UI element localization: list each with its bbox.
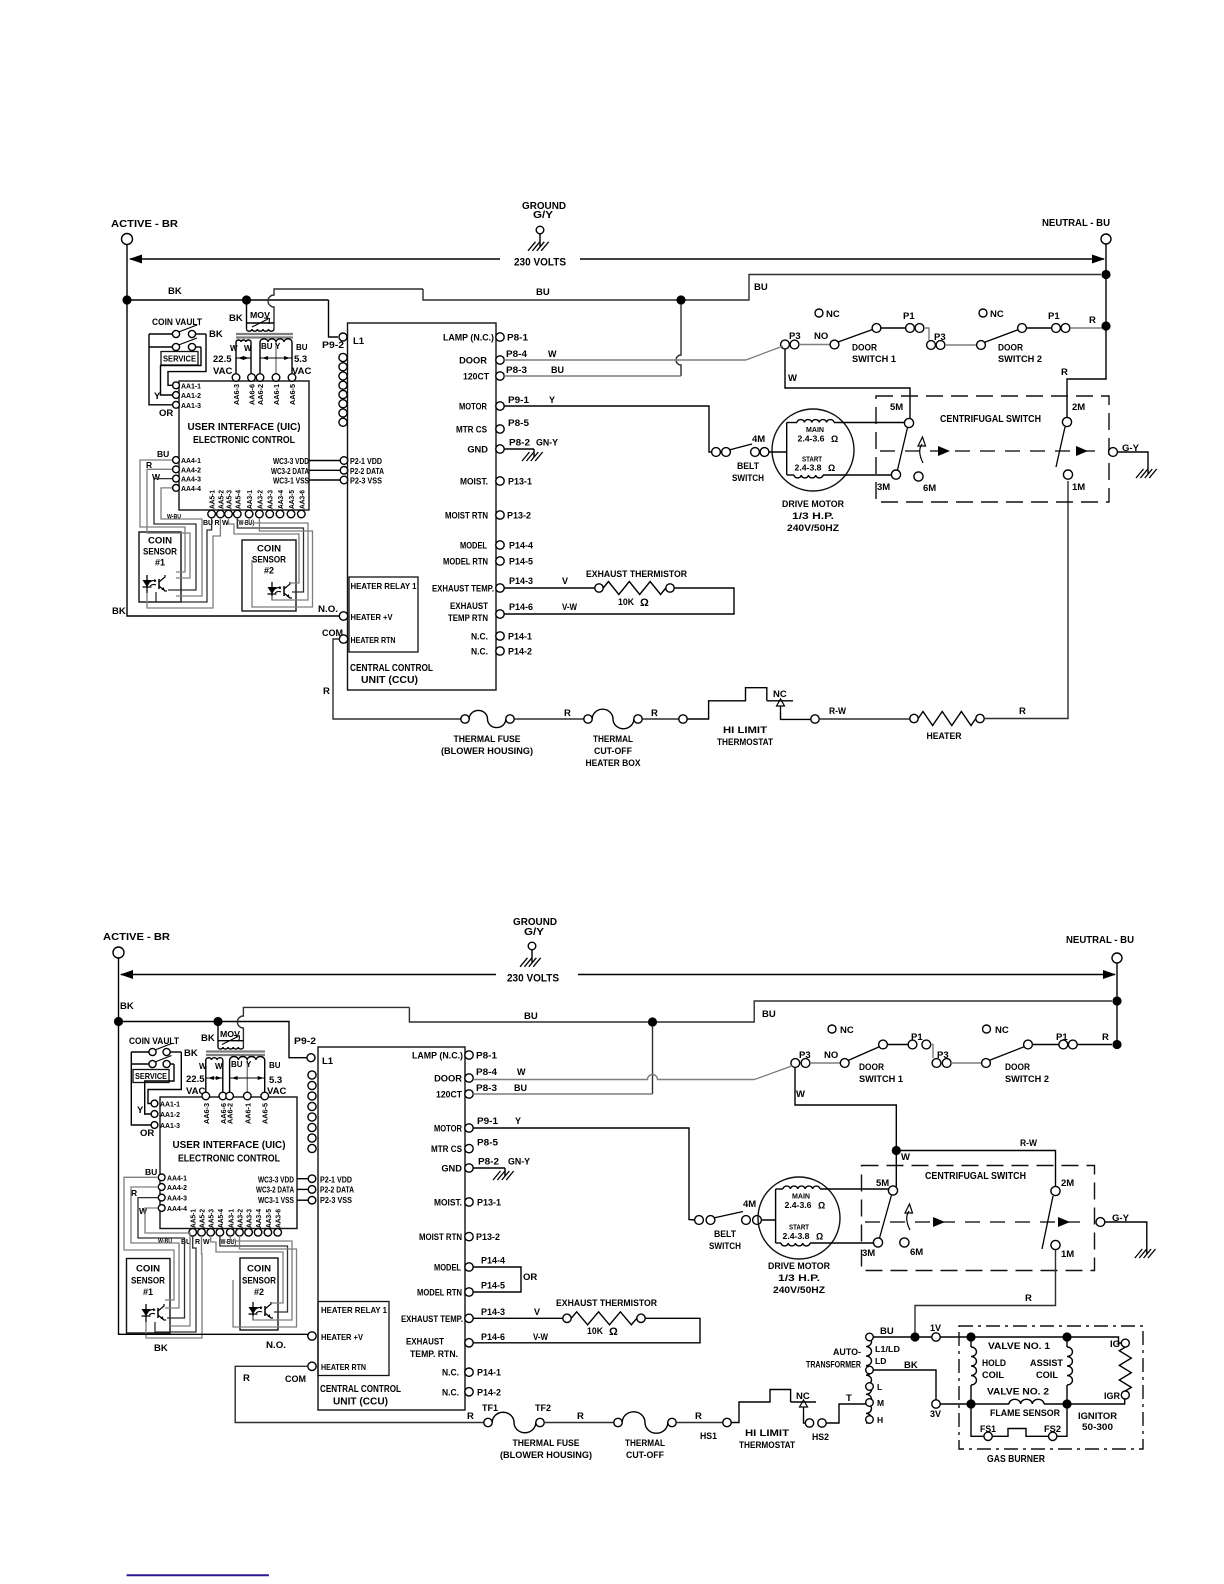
pin P9-2 / L1 xyxy=(339,333,347,341)
svg-text:DRIVE MOTOR: DRIVE MOTOR xyxy=(768,1261,830,1272)
svg-text:MOV: MOV xyxy=(220,1029,240,1039)
pin P14-3 EXHAUST TEMP. xyxy=(496,584,504,592)
switch BELT SWITCH xyxy=(712,448,721,457)
pin P8-5 MTR CS xyxy=(496,425,504,433)
wire W from door switch 1 down to 5M xyxy=(746,346,783,360)
svg-text:Ω: Ω xyxy=(609,1326,618,1338)
wire V-W return loop (bottom) xyxy=(473,1318,700,1343)
wire Y from P9-1 to belt switch xyxy=(504,406,711,452)
svg-text:THERMAL: THERMAL xyxy=(625,1438,665,1449)
rotation arrow xyxy=(920,444,923,463)
wire START to 3M (bottom) xyxy=(810,1242,874,1244)
svg-text:P8-1: P8-1 xyxy=(476,1051,497,1061)
svg-text:NO: NO xyxy=(814,331,828,342)
svg-text:THERMOSTAT: THERMOSTAT xyxy=(739,1440,795,1451)
svg-text:50-300: 50-300 xyxy=(1082,1422,1113,1433)
svg-text:EXHAUST: EXHAUST xyxy=(406,1337,444,1347)
NC contact arrow xyxy=(777,699,785,706)
svg-text:HEATER RELAY 1: HEATER RELAY 1 xyxy=(321,1306,387,1315)
svg-text:4M: 4M xyxy=(752,434,765,445)
wire W from P8-4 to door switch 1 (bottom) xyxy=(473,1075,754,1080)
svg-text:HEATER +V: HEATER +V xyxy=(321,1333,363,1342)
svg-text:MOIST RTN: MOIST RTN xyxy=(419,1232,462,1242)
svg-text:HI LIMIT: HI LIMIT xyxy=(723,725,767,736)
svg-text:IG: IG xyxy=(1110,1339,1120,1350)
svg-text:P14-1: P14-1 xyxy=(508,632,532,642)
transformer T1 secondary 5.3VAC xyxy=(260,339,292,342)
svg-text:EXHAUST: EXHAUST xyxy=(450,601,488,611)
svg-text:AA5-4: AA5-4 xyxy=(235,490,242,509)
svg-text:22.5: 22.5 xyxy=(186,1074,205,1085)
svg-text:AA3-3: AA3-3 xyxy=(247,1209,254,1228)
svg-text:AA5-3: AA5-3 xyxy=(209,1209,216,1228)
pin G-Y ground terminal xyxy=(1109,448,1118,457)
svg-text:MAIN: MAIN xyxy=(806,427,824,434)
tap M xyxy=(866,1399,874,1407)
pin P13-2 MOIST RTN xyxy=(496,511,504,519)
svg-text:NC: NC xyxy=(826,309,840,320)
svg-text:CENTRAL CONTROL: CENTRAL CONTROL xyxy=(350,663,433,674)
pin P14-6 EXHAUST TEMP. RTN. (bottom) xyxy=(465,1339,473,1347)
svg-text:P9-2: P9-2 xyxy=(294,1036,316,1047)
svg-text:N.O.: N.O. xyxy=(266,1340,286,1351)
svg-text:FLAME SENSOR: FLAME SENSOR xyxy=(990,1408,1060,1419)
svg-text:UNIT (CCU): UNIT (CCU) xyxy=(361,675,418,686)
svg-text:ACTIVE - BR: ACTIVE - BR xyxy=(111,218,178,230)
pins AA4-1..AA4-4 xyxy=(173,457,180,464)
wire BU from P8-3 (bottom) xyxy=(473,1093,652,1095)
svg-text:BU: BU xyxy=(157,449,169,459)
svg-text:ELECTRONIC CONTROL: ELECTRONIC CONTROL xyxy=(178,1153,280,1165)
svg-text:3M: 3M xyxy=(877,482,890,493)
pin P14-4 MODEL (bottom) xyxy=(465,1263,473,1271)
svg-text:P14-2: P14-2 xyxy=(477,1387,501,1397)
svg-text:N.C.: N.C. xyxy=(442,1387,459,1397)
svg-text:SENSOR: SENSOR xyxy=(131,1276,165,1286)
svg-text:Y: Y xyxy=(137,1105,144,1116)
pins AA6 transformer terminals xyxy=(232,374,240,382)
svg-text:P8-5: P8-5 xyxy=(477,1138,498,1148)
svg-text:P8-5: P8-5 xyxy=(508,418,529,428)
svg-text:R: R xyxy=(243,1373,250,1384)
pin N.O. heater relay (bottom) xyxy=(308,1332,316,1340)
svg-text:DOOR: DOOR xyxy=(859,1062,884,1073)
svg-text:EXHAUST THERMISTOR: EXHAUST THERMISTOR xyxy=(556,1298,657,1309)
svg-text:Ω: Ω xyxy=(831,434,838,444)
svg-text:DRIVE MOTOR: DRIVE MOTOR xyxy=(782,499,844,510)
junction R/BU at autotransformer xyxy=(910,1332,919,1341)
svg-text:AA5-2: AA5-2 xyxy=(200,1209,207,1228)
svg-text:P14-4: P14-4 xyxy=(509,541,534,551)
svg-text:BU: BU xyxy=(524,1011,538,1022)
svg-text:AA6-5: AA6-5 xyxy=(261,1103,270,1124)
svg-text:230 VOLTS: 230 VOLTS xyxy=(514,257,566,269)
svg-text:OR: OR xyxy=(140,1128,154,1139)
svg-text:AA4-3: AA4-3 xyxy=(181,475,201,484)
svg-text:CUT-OFF: CUT-OFF xyxy=(594,746,632,757)
junction at active/BK (bottom) xyxy=(114,1017,123,1026)
pin P13-1 MOIST. xyxy=(496,477,504,485)
svg-text:P14-4: P14-4 xyxy=(481,1256,506,1266)
svg-text:MOTOR: MOTOR xyxy=(459,402,487,412)
svg-text:1/3 H.P.: 1/3 H.P. xyxy=(778,1273,820,1284)
svg-text:SENSOR: SENSOR xyxy=(143,547,177,557)
wire R from 1M to gas burner rail xyxy=(915,1250,1056,1337)
svg-text:AA6-2: AA6-2 xyxy=(256,384,265,405)
svg-text:THERMAL FUSE: THERMAL FUSE xyxy=(454,734,521,745)
svg-text:P8-2: P8-2 xyxy=(478,1157,499,1167)
svg-text:GAS BURNER: GAS BURNER xyxy=(987,1454,1045,1465)
svg-text:R: R xyxy=(467,1411,474,1422)
svg-text:AA5-1: AA5-1 xyxy=(210,490,217,509)
UIC box (User Interface Electronic Control) xyxy=(179,381,309,510)
svg-text:R: R xyxy=(577,1411,584,1422)
svg-text:N.C.: N.C. xyxy=(442,1368,459,1378)
svg-text:P2-2 DATA: P2-2 DATA xyxy=(350,467,384,476)
svg-text:TEMP RTN: TEMP RTN xyxy=(448,613,488,623)
svg-text:P13-1: P13-1 xyxy=(508,477,532,487)
svg-text:SWITCH 1: SWITCH 1 xyxy=(859,1074,904,1085)
svg-text:W-BU: W-BU xyxy=(158,1238,172,1245)
pin COM heater relay xyxy=(339,635,347,643)
pin P13-2 MOIST RTN (bottom) xyxy=(465,1232,473,1240)
wire common to AA1-3 xyxy=(149,334,172,405)
svg-text:AA3-3: AA3-3 xyxy=(268,490,275,509)
tap LD with BK wire xyxy=(866,1366,874,1374)
svg-text:Ω: Ω xyxy=(818,1201,825,1211)
coin sensor #2 harness xyxy=(229,518,300,583)
svg-text:AA1-2: AA1-2 xyxy=(160,1110,180,1119)
transformer T1 secondary 22.5VAC (bottom) xyxy=(206,1058,223,1060)
svg-text:N.C.: N.C. xyxy=(471,632,488,642)
svg-text:W: W xyxy=(199,1062,207,1071)
svg-text:P8-3: P8-3 xyxy=(476,1083,497,1093)
svg-text:P14-2: P14-2 xyxy=(508,647,532,657)
svg-text:Y: Y xyxy=(275,342,281,351)
ground symbol at P8-2 xyxy=(533,449,535,457)
centrifugal switch box (bottom) xyxy=(862,1166,1095,1271)
svg-text:AA4-1: AA4-1 xyxy=(167,1173,187,1182)
coin sensor #2 box xyxy=(242,540,296,611)
transformer T1 core (bottom) xyxy=(206,1050,265,1052)
svg-text:(W-BU): (W-BU) xyxy=(219,1239,236,1246)
svg-text:P1: P1 xyxy=(1048,311,1060,322)
svg-text:ELECTRONIC CONTROL: ELECTRONIC CONTROL xyxy=(193,434,295,446)
wire service to AA1-2 (bottom) xyxy=(145,1064,174,1114)
relay coil ASSIST COIL xyxy=(1067,1347,1072,1385)
svg-text:MODEL RTN: MODEL RTN xyxy=(443,557,488,567)
svg-text:HEATER: HEATER xyxy=(927,731,962,742)
svg-text:240V/50HZ: 240V/50HZ xyxy=(773,1285,825,1296)
pin P8-3 120CT xyxy=(496,372,504,380)
pin G-Y ground terminal (bottom) xyxy=(1096,1218,1105,1227)
svg-text:LD: LD xyxy=(875,1356,886,1366)
svg-text:Y: Y xyxy=(515,1116,521,1126)
svg-text:LAMP (N.C.): LAMP (N.C.) xyxy=(412,1051,463,1061)
svg-text:BU: BU xyxy=(754,282,768,293)
pin P9-2 / L1 (bottom) xyxy=(307,1054,315,1062)
contact 6M (bottom) xyxy=(900,1238,909,1247)
svg-text:AA6-3: AA6-3 xyxy=(202,1103,211,1124)
svg-text:DOOR: DOOR xyxy=(459,356,487,366)
wire COM to thermal fuse xyxy=(333,639,461,719)
svg-text:P13-2: P13-2 xyxy=(507,511,531,521)
svg-text:AA5-2: AA5-2 xyxy=(218,490,225,509)
winding MAIN 2.4-3.6 xyxy=(787,422,797,424)
svg-text:START: START xyxy=(802,457,823,464)
svg-text:P2-1 VDD: P2-1 VDD xyxy=(350,457,382,466)
junction BU to 120CT xyxy=(676,295,685,304)
CCU box (Central Control Unit) xyxy=(348,323,497,690)
svg-text:EXHAUST TEMP.: EXHAUST TEMP. xyxy=(432,584,494,594)
svg-text:2M: 2M xyxy=(1061,1178,1074,1189)
svg-text:SERVICE: SERVICE xyxy=(135,1071,167,1081)
svg-text:P1: P1 xyxy=(903,311,915,322)
wire GND to earth (bottom) xyxy=(473,1167,505,1169)
svg-text:BU: BU xyxy=(145,1167,157,1177)
wire R-W to heater xyxy=(819,718,910,720)
svg-text:BK: BK xyxy=(112,606,126,617)
CCU left unlabeled pins (bottom) xyxy=(308,1071,316,1079)
svg-text:1V: 1V xyxy=(930,1323,942,1334)
terminal 3V xyxy=(932,1400,940,1408)
svg-text:VAC: VAC xyxy=(213,366,232,377)
svg-text:P2-3 VSS: P2-3 VSS xyxy=(350,477,382,486)
svg-text:EXHAUST TEMP.: EXHAUST TEMP. xyxy=(401,1314,463,1324)
svg-text:DOOR: DOOR xyxy=(434,1074,462,1084)
svg-text:BU: BU xyxy=(261,342,273,351)
svg-text:W: W xyxy=(517,1067,526,1077)
svg-text:BU: BU xyxy=(762,1009,776,1020)
svg-text:R: R xyxy=(651,708,658,719)
wire valve2 to IGR xyxy=(1067,1399,1125,1404)
wire MAIN to 5M (bottom) xyxy=(820,1188,889,1190)
svg-text:4M: 4M xyxy=(743,1199,756,1210)
pins AA1-1..AA1-3 xyxy=(173,382,180,389)
motor DRIVE MOTOR (bottom) xyxy=(758,1177,840,1259)
svg-text:BELT: BELT xyxy=(714,1229,736,1240)
svg-text:M: M xyxy=(877,1398,884,1408)
wire V from P14-3 (bottom) xyxy=(473,1317,563,1319)
contact 1M (bottom) xyxy=(1042,1196,1053,1249)
wire neutral vertical xyxy=(1105,244,1107,326)
svg-text:R-W: R-W xyxy=(829,706,846,717)
wire COM to thermal fuse (bottom) xyxy=(235,1366,484,1422)
svg-text:(BLOWER HOUSING): (BLOWER HOUSING) xyxy=(441,746,533,757)
svg-text:W: W xyxy=(901,1152,910,1163)
pin P9-1 MOTOR (bottom) xyxy=(465,1124,473,1132)
thermostat HI LIMIT (bottom) xyxy=(731,1390,790,1423)
svg-text:G/Y: G/Y xyxy=(524,927,544,938)
svg-text:P2-1 VDD: P2-1 VDD xyxy=(320,1176,352,1185)
svg-text:BK: BK xyxy=(209,329,223,340)
wire heater to 1M xyxy=(984,481,1068,719)
svg-text:R: R xyxy=(215,520,220,527)
svg-text:10K: 10K xyxy=(618,597,634,608)
pin P14-6 EXHAUST TEMP RTN xyxy=(496,610,504,618)
svg-text:P2-2 DATA: P2-2 DATA xyxy=(320,1186,354,1195)
svg-text:DOOR: DOOR xyxy=(998,343,1023,354)
svg-text:HS2: HS2 xyxy=(812,1432,829,1443)
optocoupler coin sensor #2 xyxy=(271,582,273,600)
junction valve2 left xyxy=(966,1399,975,1408)
svg-text:WC3-2 DATA: WC3-2 DATA xyxy=(271,467,309,476)
pin P8-3 120CT (bottom) xyxy=(465,1090,473,1098)
transformer T1 primary xyxy=(247,329,275,331)
svg-text:R: R xyxy=(564,708,571,719)
svg-text:AUTO-: AUTO- xyxy=(833,1347,861,1358)
svg-text:P14-6: P14-6 xyxy=(481,1332,505,1342)
svg-text:5M: 5M xyxy=(890,402,903,413)
ground symbol (top supply) xyxy=(539,234,541,247)
svg-text:P14-3: P14-3 xyxy=(481,1307,505,1317)
svg-text:USER INTERFACE (UIC): USER INTERFACE (UIC) xyxy=(188,421,301,433)
svg-text:R: R xyxy=(1061,367,1068,378)
wire BU drop to 120CT with hop over W xyxy=(676,304,681,376)
junction at active/BK xyxy=(122,295,131,304)
svg-text:MTR CS: MTR CS xyxy=(456,425,487,435)
pin P14-4 MODEL xyxy=(496,541,504,549)
wire MAIN to 5M xyxy=(834,422,905,424)
tap L xyxy=(866,1383,874,1391)
svg-text:Ω: Ω xyxy=(816,1232,823,1242)
svg-text:SWITCH: SWITCH xyxy=(732,473,764,484)
thermal fuse (blower housing) xyxy=(461,715,469,723)
junction BU/neutral (bottom) xyxy=(1112,996,1121,1005)
terminal HS1 xyxy=(723,1418,731,1426)
svg-text:R: R xyxy=(695,1411,702,1422)
svg-text:120CT: 120CT xyxy=(436,1090,462,1100)
svg-text:NO: NO xyxy=(824,1050,838,1061)
svg-text:AA5-3: AA5-3 xyxy=(227,490,234,509)
svg-text:NEUTRAL - BU: NEUTRAL - BU xyxy=(1042,217,1110,229)
svg-text:AA1-1: AA1-1 xyxy=(181,381,201,390)
pin P14-5 MODEL RTN (bottom) xyxy=(465,1288,473,1296)
svg-text:BU: BU xyxy=(536,287,550,298)
svg-text:COIL: COIL xyxy=(1036,1370,1058,1381)
wire BU from MOV to neutral (bottom) xyxy=(237,1007,409,1047)
svg-text:SENSOR: SENSOR xyxy=(252,555,286,565)
svg-text:NEUTRAL - BU: NEUTRAL - BU xyxy=(1066,934,1134,946)
wire BU rail to 1V and gas burner xyxy=(915,1336,932,1338)
svg-text:AA4-2: AA4-2 xyxy=(181,465,201,474)
junction valve1 right xyxy=(1062,1332,1071,1341)
ground symbol (bottom supply) xyxy=(531,950,533,963)
svg-text:BK: BK xyxy=(201,1033,215,1044)
svg-text:GN-Y: GN-Y xyxy=(536,438,559,448)
pin P8-5 MTR CS (bottom) xyxy=(465,1144,473,1152)
svg-text:COM: COM xyxy=(285,1374,306,1385)
transformer T1 secondary 22.5VAC xyxy=(236,340,251,342)
svg-text:AA3-6: AA3-6 xyxy=(276,1209,283,1228)
svg-text:VALVE NO. 1: VALVE NO. 1 xyxy=(988,1341,1051,1352)
svg-text:MODEL RTN: MODEL RTN xyxy=(417,1288,462,1298)
ground symbol at centrifugal switch xyxy=(1147,468,1149,474)
svg-text:P8-1: P8-1 xyxy=(507,333,528,343)
svg-text:NC: NC xyxy=(773,689,787,700)
svg-text:BU: BU xyxy=(880,1326,894,1337)
heater element HEATER xyxy=(910,714,918,722)
svg-text:R: R xyxy=(131,1188,137,1198)
svg-text:W: W xyxy=(796,1089,805,1100)
svg-text:T: T xyxy=(846,1393,852,1404)
transformer T1 core xyxy=(236,333,293,335)
pin P14-5 MODEL RTN xyxy=(496,557,504,565)
wire BK to N.O. xyxy=(127,612,339,616)
svg-text:GND: GND xyxy=(467,445,488,455)
svg-text:SWITCH 1: SWITCH 1 xyxy=(852,354,897,365)
svg-text:W: W xyxy=(788,373,797,384)
svg-text:MOTOR: MOTOR xyxy=(434,1124,462,1134)
svg-text:MOIST.: MOIST. xyxy=(460,477,488,487)
svg-text:WC3-1 VSS: WC3-1 VSS xyxy=(273,477,309,486)
svg-text:1/3 H.P.: 1/3 H.P. xyxy=(792,511,834,522)
svg-text:AA3-4: AA3-4 xyxy=(278,490,285,509)
contact 1M xyxy=(1056,427,1065,467)
junction at MOV/transformer xyxy=(242,295,251,304)
transformer T1 secondary 5.3VAC (bottom) xyxy=(230,1056,265,1060)
junction BU/neutral xyxy=(1101,270,1110,279)
rotation arrow (bottom) xyxy=(907,1211,910,1230)
svg-text:SERVICE: SERVICE xyxy=(163,354,196,364)
svg-text:AA6-3: AA6-3 xyxy=(232,384,241,405)
svg-text:AA3-2: AA3-2 xyxy=(238,1209,245,1228)
svg-text:CENTRIFUGAL SWITCH: CENTRIFUGAL SWITCH xyxy=(925,1171,1026,1182)
svg-text:P9-2: P9-2 xyxy=(322,340,344,351)
wire 230 VOLTS measuring line (bottom) xyxy=(121,974,496,976)
junction valve2 right xyxy=(1062,1399,1071,1408)
junction W (bottom) xyxy=(892,1146,901,1155)
svg-text:N.C.: N.C. xyxy=(471,647,488,657)
pin P14-1 N.C. (bottom) xyxy=(465,1368,473,1376)
pin P8-4 DOOR xyxy=(496,356,504,364)
svg-text:HEATER RTN: HEATER RTN xyxy=(321,1363,366,1372)
svg-text:W: W xyxy=(548,349,557,359)
wire BU from MOV to neutral xyxy=(268,289,423,329)
wire neutral vertical (bottom) xyxy=(1116,963,1118,1045)
svg-text:230 VOLTS: 230 VOLTS xyxy=(507,973,559,985)
svg-text:MOIST.: MOIST. xyxy=(434,1198,462,1208)
svg-text:V-W: V-W xyxy=(533,1332,548,1342)
svg-text:BU: BU xyxy=(514,1083,527,1093)
thermostat HI LIMIT xyxy=(679,715,687,723)
svg-text:AA1-3: AA1-3 xyxy=(181,401,201,410)
svg-text:P8-2: P8-2 xyxy=(509,438,530,448)
pin P8-2 GND xyxy=(496,445,504,453)
svg-text:DOOR: DOOR xyxy=(852,343,877,354)
svg-text:COIN VAULT: COIN VAULT xyxy=(129,1036,179,1047)
svg-text:WC3-2 DATA: WC3-2 DATA xyxy=(256,1186,294,1195)
svg-text:HOLD: HOLD xyxy=(982,1358,1006,1369)
wire BK to N.O. (bottom) xyxy=(119,1330,308,1336)
svg-text:#1: #1 xyxy=(143,1287,153,1297)
svg-text:USER INTERFACE (UIC): USER INTERFACE (UIC) xyxy=(173,1139,286,1151)
svg-text:AA4-4: AA4-4 xyxy=(181,484,202,493)
svg-text:BU: BU xyxy=(296,343,308,352)
optocoupler coin sensor #1 xyxy=(146,575,148,593)
svg-text:MTR CS: MTR CS xyxy=(431,1144,462,1154)
svg-text:IGR: IGR xyxy=(1104,1391,1120,1402)
svg-text:AA4-4: AA4-4 xyxy=(167,1204,188,1213)
UIC box (bottom) xyxy=(160,1097,297,1229)
svg-text:R-W: R-W xyxy=(1020,1138,1037,1149)
svg-text:N.O.: N.O. xyxy=(318,604,338,615)
svg-text:BK: BK xyxy=(184,1048,198,1059)
svg-text:TF2: TF2 xyxy=(535,1403,551,1414)
wire R-W from W junction to 2M xyxy=(896,1151,1055,1187)
svg-text:P9-1: P9-1 xyxy=(508,395,529,405)
wire service to AA1-2 xyxy=(161,347,202,395)
